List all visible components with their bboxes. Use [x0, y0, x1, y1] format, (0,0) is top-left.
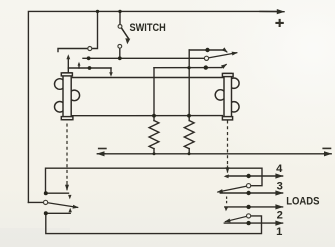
svg-text:4: 4 [276, 163, 283, 175]
svg-text:2: 2 [277, 210, 283, 222]
svg-text:SWITCH: SWITCH [130, 22, 166, 34]
svg-text:3: 3 [277, 180, 283, 192]
svg-text:1: 1 [276, 226, 282, 238]
svg-text:LOADS: LOADS [286, 196, 319, 208]
